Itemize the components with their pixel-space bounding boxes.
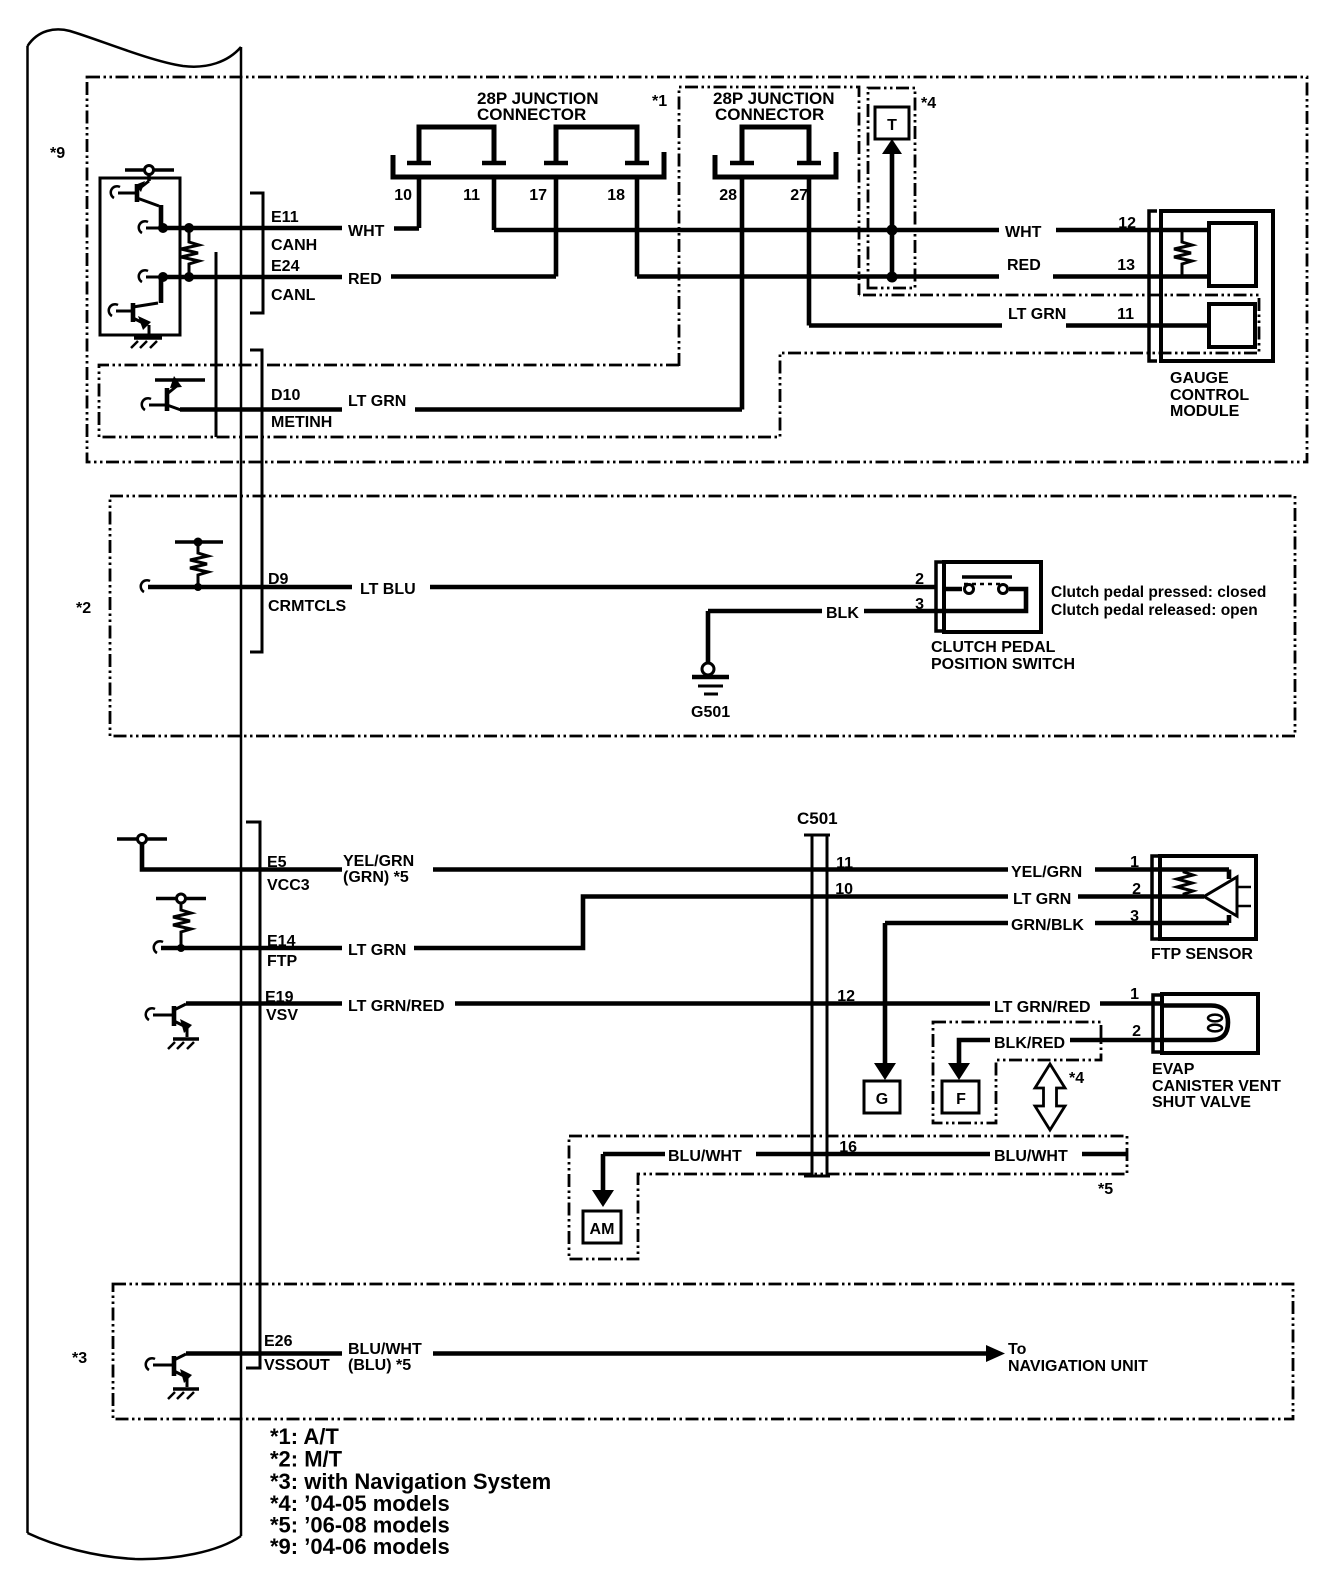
pin number 2 (FTP sensor) <box>1132 881 1141 898</box>
wire LT GRN from label to FTP sensor pin 2 <box>1078 894 1204 899</box>
pin number 11 (C501) <box>836 855 853 872</box>
svg-text:1: 1 <box>1130 854 1139 871</box>
wire RED from pin 18 to gauge control module pin 13 <box>637 274 1209 279</box>
svg-text:CANISTER VENT: CANISTER VENT <box>1152 1078 1281 1095</box>
wire label WHT (right) <box>1005 224 1042 241</box>
28P junction connector 2 staple pins 28-27 <box>730 127 821 163</box>
svg-text:E14: E14 <box>267 933 296 950</box>
pin label D9 <box>268 571 289 588</box>
svg-text:E24: E24 <box>271 258 300 275</box>
svg-text:VCC3: VCC3 <box>267 877 310 894</box>
internal supply symbol VCC3 <box>117 835 342 870</box>
pin number 3 (clutch switch) <box>915 596 924 613</box>
svg-text:YEL/GRN: YEL/GRN <box>1011 864 1082 881</box>
svg-text:CONNECTOR: CONNECTOR <box>477 105 586 124</box>
pin number 28 <box>719 187 737 204</box>
svg-text:27: 27 <box>790 187 808 204</box>
svg-text:SHUT VALVE: SHUT VALVE <box>1152 1094 1251 1111</box>
clutch pedal position switch box <box>944 562 1041 632</box>
ECM/PCM torn-page strip bottom tear curve <box>28 1533 242 1559</box>
svg-text:(GRN) *5: (GRN) *5 <box>343 869 409 886</box>
legend notes <box>270 1424 551 1559</box>
pin 27 lead down then right <box>807 177 812 326</box>
transistor Q3 (METINH driver D10) <box>142 376 205 411</box>
pin label E5 <box>267 854 287 871</box>
ECM connector bracket E11/E24 <box>250 193 263 313</box>
svg-text:LT GRN: LT GRN <box>348 393 406 410</box>
pin number 16 (C501) <box>839 1139 857 1156</box>
transistor Q4 (VSV driver E19) <box>146 1004 192 1037</box>
svg-text:11: 11 <box>1117 306 1134 323</box>
svg-text:10: 10 <box>394 187 412 204</box>
clutch pedal position switch connector bracket <box>936 562 944 631</box>
svg-text:D10: D10 <box>271 387 300 404</box>
wire label LT GRN (E14 left) <box>348 942 406 959</box>
wire BLK from ground to label <box>708 609 822 614</box>
label *1 <box>652 93 667 110</box>
svg-text:17: 17 <box>529 187 547 204</box>
pin label D10 <box>271 387 300 404</box>
pin number 1 (FTP sensor) <box>1130 854 1139 871</box>
svg-text:*3: *3 <box>72 1350 87 1367</box>
ECM connector bracket E5-E26 <box>246 822 260 1368</box>
svg-text:*2: M/T: *2: M/T <box>270 1447 343 1472</box>
node CANH junction dots <box>158 223 194 233</box>
EVAP valve connector bracket <box>1153 995 1162 1052</box>
wire label WHT (left) <box>348 223 385 240</box>
pin label E14 <box>267 933 296 950</box>
svg-text:3: 3 <box>1130 908 1139 925</box>
wire CANH inside ECM <box>163 226 342 231</box>
arrow down to F connector <box>948 1063 970 1080</box>
svg-text:RED: RED <box>1007 257 1041 274</box>
pin number 11 <box>463 187 480 204</box>
pin 28 lead down to LT GRN wire <box>740 177 745 410</box>
svg-text:T: T <box>887 117 897 134</box>
wire LT GRN/RED from label to EVAP valve pin 1 <box>1100 1001 1162 1006</box>
pin 11 lead <box>492 177 497 230</box>
pin number 18 <box>607 187 625 204</box>
svg-text:CLUTCH PEDAL: CLUTCH PEDAL <box>931 639 1056 656</box>
svg-text:WHT: WHT <box>348 223 385 240</box>
wire label BLK/RED <box>994 1035 1065 1052</box>
pin label E11 <box>271 209 299 226</box>
svg-text:LT GRN: LT GRN <box>1008 306 1066 323</box>
svg-text:E19: E19 <box>265 989 294 1006</box>
transistor Q1 (CAN high side) <box>111 181 161 228</box>
wire FTP inside ECM with curl <box>154 941 342 953</box>
pin 17 lead <box>554 177 559 277</box>
wire CRMTCLS inside ECM with curl <box>141 580 352 592</box>
gauge control module connector bracket <box>1149 211 1157 361</box>
svg-text:FTP: FTP <box>267 953 298 970</box>
ground label G501 <box>691 704 730 721</box>
wire label LT GRN/RED (right) <box>994 999 1091 1016</box>
svg-text:GRN/BLK: GRN/BLK <box>1011 917 1084 934</box>
pin number 1 (EVAP valve) <box>1130 986 1139 1003</box>
resistor CAN termination <box>181 228 199 277</box>
svg-text:G: G <box>876 1091 888 1108</box>
wire LT GRN from D10 to label <box>180 407 342 412</box>
wire LT GRN from label to junction connector pin 28 <box>415 407 742 412</box>
svg-text:F: F <box>956 1091 966 1108</box>
svg-text:YEL/GRN: YEL/GRN <box>343 853 414 870</box>
section box *1 (A/T) around 28P junction connector <box>679 87 859 366</box>
svg-text:CRMTCLS: CRMTCLS <box>268 598 347 615</box>
label *4 (top) <box>921 95 936 112</box>
signal label VSV <box>266 1007 298 1024</box>
signal label VCC3 <box>267 877 310 894</box>
svg-text:AM: AM <box>590 1221 615 1238</box>
wire label LT GRN/RED (left) <box>348 998 445 1015</box>
wire label RED (left) <box>348 271 382 288</box>
pin number 10 (C501) <box>835 881 853 898</box>
FTP sensor internals <box>1177 870 1251 924</box>
wire label BLU/WHT (BLU) *5 <box>348 1341 422 1374</box>
note clutch pedal pressed/released <box>1051 584 1266 619</box>
pin number 12 (C501) <box>837 988 855 1005</box>
in-line connector C501 <box>804 835 830 1176</box>
component label FTP SENSOR <box>1151 946 1253 963</box>
lead stub with curl at CANH <box>139 221 163 233</box>
signal label CANL <box>271 287 316 304</box>
svg-text:*4: *4 <box>921 95 936 112</box>
svg-text:WHT: WHT <box>1005 224 1042 241</box>
node CANL junction dots <box>158 272 194 282</box>
transistor Q5 (VSSOUT driver E26) <box>146 1354 192 1387</box>
28P junction connector 2 bus bar <box>715 152 836 177</box>
wire label YEL/GRN (GRN) *5 (left) <box>343 853 414 886</box>
svg-text:C501: C501 <box>797 809 838 828</box>
svg-text:CONNECTOR: CONNECTOR <box>715 105 824 124</box>
svg-text:NAVIGATION UNIT: NAVIGATION UNIT <box>1008 1358 1148 1375</box>
section box *3 (with Navigation System) <box>113 1284 1293 1419</box>
double-headed arrow '04-05 / '06-08 swap <box>1035 1064 1065 1130</box>
clutch switch internal contacts <box>944 577 1026 611</box>
pin number 12 <box>1118 215 1136 232</box>
gauge control module internal block 2 <box>1209 304 1255 347</box>
svg-text:(BLU) *5: (BLU) *5 <box>348 1357 411 1374</box>
lead stub with curl at CANL <box>139 270 163 282</box>
svg-text:E11: E11 <box>271 209 299 226</box>
wire label RED (right) <box>1007 257 1041 274</box>
svg-text:*1: A/T: *1: A/T <box>270 1424 339 1449</box>
wire VSSOUT inside ECM <box>186 1351 342 1356</box>
ground rake at E26 transistor <box>168 1389 199 1399</box>
internal power rail with supply circle <box>125 166 174 182</box>
wire BLU/WHT from label through C501 pin 16 <box>756 1152 990 1157</box>
pin label E24 <box>271 258 300 275</box>
section box *4 ('04-05 models) around T tester connector <box>868 88 915 288</box>
svg-text:28: 28 <box>719 187 737 204</box>
wire BLK from label to clutch pedal position switch pin 3 <box>864 609 944 614</box>
ground rake at E19 transistor <box>168 1039 199 1049</box>
svg-text:VSV: VSV <box>266 1007 298 1024</box>
label *3 <box>72 1350 87 1367</box>
section box *2 (M/T) <box>110 496 1295 736</box>
wire WHT from pin 11 to gauge control module pin 12 <box>494 228 1209 233</box>
wire label LT GRN (METINH) <box>348 393 406 410</box>
wire LT GRN jog up to C501 pin 10 level <box>414 897 1008 949</box>
svg-text:G501: G501 <box>691 704 730 721</box>
subsection box *4 around BLK/RED and F <box>933 1022 1101 1123</box>
wire BLK/RED elbow from F branch <box>959 1040 990 1064</box>
svg-text:Clutch pedal pressed: closed: Clutch pedal pressed: closed <box>1051 584 1266 601</box>
wire label BLK <box>826 605 859 622</box>
signal label CRMTCLS <box>268 598 347 615</box>
FTP sensor connector bracket <box>1152 856 1160 939</box>
wire BLU/WHT stub to *5 box edge <box>1082 1152 1127 1157</box>
T tester connector box <box>875 107 909 139</box>
svg-text:*1: *1 <box>652 93 667 110</box>
svg-text:18: 18 <box>607 187 625 204</box>
label 28P JUNCTION CONNECTOR (left) <box>477 89 599 124</box>
wire LT BLU from label to clutch pedal position switch pin 2 <box>430 585 936 590</box>
svg-text:*9: *9 <box>50 145 65 162</box>
pin number 13 <box>1117 257 1135 274</box>
pin number 2 (EVAP valve) <box>1132 1023 1141 1040</box>
subsection box *5 around BLU/WHT <box>569 1136 1127 1259</box>
svg-text:LT GRN/RED: LT GRN/RED <box>348 998 445 1015</box>
pin number 27 <box>790 187 808 204</box>
pin number 17 <box>529 187 547 204</box>
svg-text:EVAP: EVAP <box>1152 1061 1195 1078</box>
wire stub from CAN termination center tap down to METINH border <box>215 252 218 437</box>
svg-text:BLK/RED: BLK/RED <box>994 1035 1065 1052</box>
wire CANL inside ECM <box>163 275 342 280</box>
svg-text:To: To <box>1008 1341 1027 1358</box>
label To NAVIGATION UNIT <box>1008 1341 1148 1375</box>
wire label YEL/GRN (right) <box>1011 864 1082 881</box>
svg-text:BLU/WHT: BLU/WHT <box>348 1341 422 1358</box>
svg-text:CANH: CANH <box>271 237 317 254</box>
pin number 10 <box>394 187 412 204</box>
svg-text:LT BLU: LT BLU <box>360 581 416 598</box>
label *5 <box>1098 1181 1113 1198</box>
wire WHT from label to pin 10 <box>394 226 419 231</box>
ground G501 <box>692 611 729 694</box>
svg-text:POSITION SWITCH: POSITION SWITCH <box>931 656 1075 673</box>
svg-text:MODULE: MODULE <box>1170 403 1240 420</box>
connector symbol F <box>942 1081 979 1113</box>
wire label BLU/WHT (right) <box>994 1148 1068 1165</box>
wire YEL/GRN from label to FTP sensor pin 1 <box>1095 867 1229 872</box>
wire label LT GRN (right) <box>1013 891 1071 908</box>
svg-text:*4: *4 <box>1069 1070 1084 1087</box>
pin number 11 (gauge) <box>1117 306 1134 323</box>
arrow from WHT/RED wires up to T connector <box>882 139 902 283</box>
svg-text:12: 12 <box>1118 215 1136 232</box>
svg-text:GAUGE: GAUGE <box>1170 370 1229 387</box>
wire VSV inside ECM <box>186 1001 342 1006</box>
ground rake under CAN driver box <box>131 338 162 348</box>
gauge control module outer box <box>1161 211 1273 361</box>
wire label GRN/BLK <box>1011 917 1084 934</box>
EVAP valve solenoid tube and coil <box>1162 1006 1228 1041</box>
svg-text:D9: D9 <box>268 571 289 588</box>
pin label E26 <box>264 1333 293 1350</box>
svg-text:*2: *2 <box>76 600 91 617</box>
wire BLK/RED from label to EVAP valve pin 2 <box>1070 1038 1162 1043</box>
svg-text:*5: *5 <box>1098 1181 1113 1198</box>
signal label METINH <box>271 414 332 431</box>
pin label E19 <box>265 989 294 1006</box>
resistor inside gauge control module <box>1174 230 1192 277</box>
svg-text:13: 13 <box>1117 257 1135 274</box>
svg-text:16: 16 <box>839 1139 857 1156</box>
label 28P JUNCTION CONNECTOR (right) <box>713 89 835 124</box>
connector symbol AM <box>583 1211 621 1243</box>
ECM internal CAN driver box <box>100 178 180 335</box>
connector label C501 <box>797 809 838 828</box>
wire GRN/BLK from label to FTP sensor pin 3 <box>1095 921 1229 926</box>
svg-text:2: 2 <box>1132 881 1141 898</box>
wire YEL/GRN from label through C501 <box>433 867 1008 872</box>
label *2 <box>76 600 91 617</box>
svg-text:Clutch pedal released: open: Clutch pedal released: open <box>1051 602 1258 619</box>
svg-text:LT GRN: LT GRN <box>1013 891 1071 908</box>
svg-text:2: 2 <box>915 571 924 588</box>
signal label CANH <box>271 237 317 254</box>
svg-text:LT GRN/RED: LT GRN/RED <box>994 999 1091 1016</box>
EVAP canister vent shut valve box <box>1162 994 1258 1053</box>
svg-text:FTP SENSOR: FTP SENSOR <box>1151 946 1253 963</box>
section box *9 ('04-06 models) <box>87 77 1307 462</box>
label *9 <box>50 145 65 162</box>
28P junction connector 1 staple pins 17-18 <box>544 127 649 163</box>
pin 18 lead <box>635 177 640 277</box>
pin 10 lead <box>417 177 422 228</box>
transistor Q2 (CAN low side) <box>109 277 161 335</box>
ECM/PCM torn-page strip left edge <box>26 46 29 1533</box>
28P junction connector 1 bus bar <box>393 152 664 177</box>
label *4 (middle) <box>1069 1070 1084 1087</box>
svg-text:1: 1 <box>1130 986 1139 1003</box>
component label EVAP CANISTER VENT SHUT VALVE <box>1152 1061 1281 1111</box>
wire label LT BLU <box>360 581 416 598</box>
wire label LT GRN (gauge) <box>1008 306 1066 323</box>
ECM/PCM torn-page strip top tear curve <box>28 29 242 66</box>
wire LT GRN from pin 27 to gauge control module pin 11 <box>809 323 1209 328</box>
svg-text:11: 11 <box>836 855 853 872</box>
svg-text:*9: ’04-06 models: *9: ’04-06 models <box>270 1534 450 1559</box>
svg-text:CONTROL: CONTROL <box>1170 387 1249 404</box>
svg-text:BLU/WHT: BLU/WHT <box>994 1148 1068 1165</box>
ECM/PCM torn-page strip right edge <box>240 47 243 1536</box>
wire BLU/WHT from AM arrow to label <box>603 1152 665 1157</box>
resistor pull-up at E14 <box>156 894 206 952</box>
svg-text:VSSOUT: VSSOUT <box>264 1357 330 1374</box>
svg-text:12: 12 <box>837 988 855 1005</box>
connector symbol G <box>864 1081 900 1113</box>
svg-text:LT GRN: LT GRN <box>348 942 406 959</box>
FTP sensor box <box>1160 856 1256 939</box>
pin number 2 (clutch switch) <box>915 571 924 588</box>
arrow down to AM connector <box>592 1154 614 1207</box>
svg-text:BLU/WHT: BLU/WHT <box>668 1148 742 1165</box>
signal label FTP <box>267 953 298 970</box>
wire label BLU/WHT (left) <box>668 1148 742 1165</box>
wire RED from label to pin 17 <box>391 274 556 279</box>
pin number 3 (FTP sensor) <box>1130 908 1139 925</box>
ECM connector bracket D10/D9 <box>250 350 262 652</box>
METINH subsection dash-dot outline <box>99 295 1259 437</box>
svg-text:METINH: METINH <box>271 414 332 431</box>
28P junction connector 1 staple pins 10-11 <box>407 127 506 163</box>
svg-text:RED: RED <box>348 271 382 288</box>
svg-text:2: 2 <box>1132 1023 1141 1040</box>
gauge control module internal block 1 <box>1209 223 1256 286</box>
svg-text:E5: E5 <box>267 854 287 871</box>
svg-text:11: 11 <box>463 187 480 204</box>
svg-text:CANL: CANL <box>271 287 316 304</box>
resistor pull-up at D9 <box>175 538 223 592</box>
svg-text:BLK: BLK <box>826 605 859 622</box>
signal label VSSOUT <box>264 1357 330 1374</box>
component label CLUTCH PEDAL POSITION SWITCH <box>931 639 1075 673</box>
svg-text:10: 10 <box>835 881 853 898</box>
wire LT GRN/RED from label through C501 <box>455 1001 990 1006</box>
wire GRN/BLK from G branch to label <box>885 921 1008 926</box>
component label GAUGE CONTROL MODULE <box>1170 370 1249 420</box>
svg-text:E26: E26 <box>264 1333 293 1350</box>
wire BLU/WHT to navigation unit with arrowhead <box>433 1345 1005 1362</box>
arrow down to G connector <box>874 923 896 1080</box>
